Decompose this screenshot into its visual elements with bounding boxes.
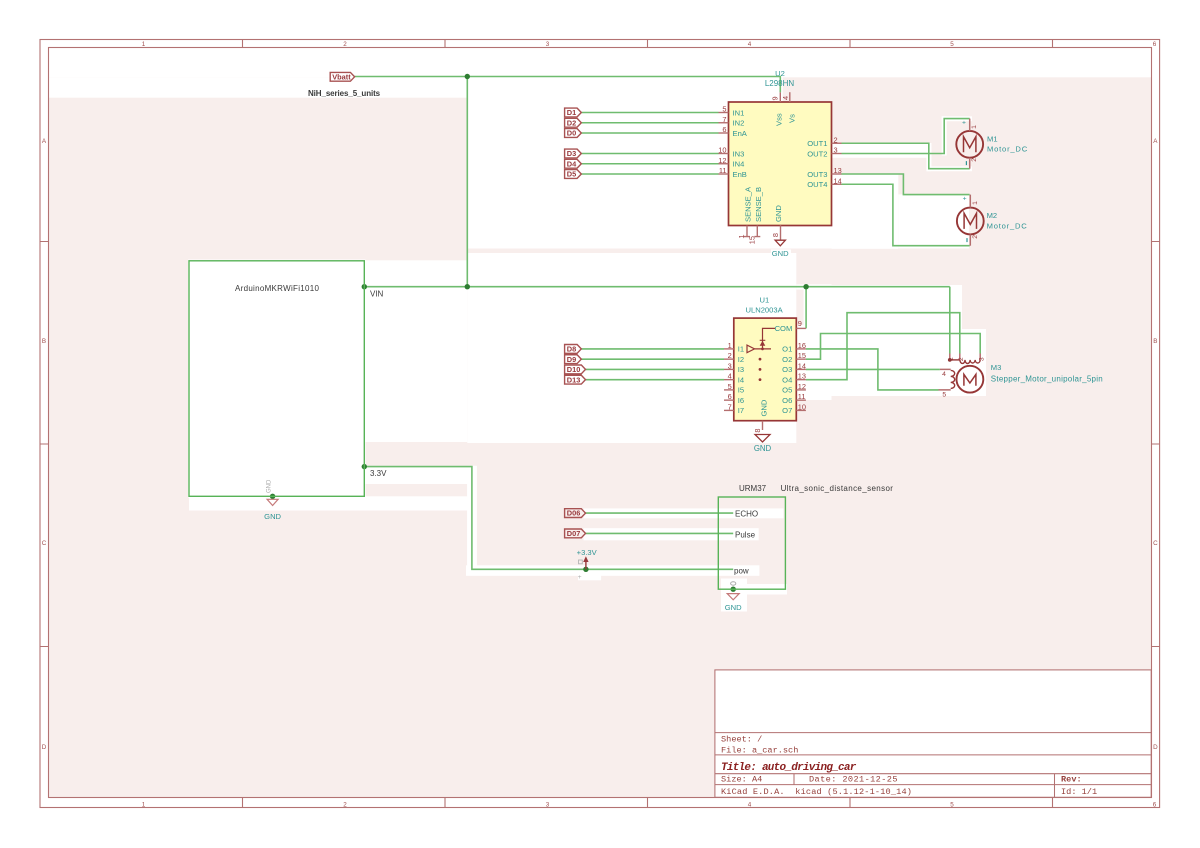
svg-text:I7: I7: [738, 406, 744, 415]
svg-text:U2: U2: [775, 69, 785, 78]
svg-text:10: 10: [798, 402, 806, 411]
svg-text:File: a_car.sch: File: a_car.sch: [721, 745, 798, 755]
svg-text:I4: I4: [738, 375, 744, 384]
svg-text:I1: I1: [738, 345, 744, 354]
svg-text:8: 8: [753, 429, 762, 433]
svg-text:O1: O1: [782, 345, 792, 354]
svg-text:5: 5: [942, 392, 946, 399]
svg-text:3: 3: [834, 146, 838, 155]
svg-text:3: 3: [546, 802, 550, 809]
svg-text:Title: auto_driving_car: Title: auto_driving_car: [721, 762, 857, 774]
svg-text:+3.3V: +3.3V: [577, 548, 598, 557]
svg-text:Vs: Vs: [788, 114, 797, 123]
svg-text:GND: GND: [759, 399, 768, 416]
svg-text:+: +: [578, 574, 582, 581]
svg-text:7: 7: [728, 402, 732, 411]
svg-text:Vbatt: Vbatt: [332, 72, 351, 81]
svg-text:2: 2: [343, 41, 347, 48]
svg-text:1: 1: [972, 201, 979, 205]
svg-text:D4: D4: [567, 159, 577, 168]
svg-text:+: +: [963, 195, 967, 202]
svg-text:D8: D8: [567, 345, 576, 354]
svg-text:COM: COM: [775, 324, 793, 333]
svg-text:1: 1: [142, 802, 146, 809]
svg-text:I3: I3: [738, 365, 744, 374]
svg-text:12: 12: [718, 156, 726, 165]
svg-text:GND: GND: [264, 512, 281, 521]
svg-text:2: 2: [972, 235, 979, 239]
svg-text:Motor_DC: Motor_DC: [987, 221, 1028, 230]
svg-text:Size: A4: Size: A4: [721, 775, 762, 785]
svg-text:Motor_DC: Motor_DC: [987, 144, 1028, 153]
svg-text:URM37: URM37: [739, 484, 767, 493]
svg-text:10: 10: [718, 146, 726, 155]
svg-text:D06: D06: [567, 509, 581, 518]
svg-text:GND: GND: [774, 205, 783, 222]
svg-text:O4: O4: [782, 375, 792, 384]
svg-text:D5: D5: [567, 170, 576, 179]
svg-text:4: 4: [748, 802, 752, 809]
svg-text:15: 15: [748, 236, 757, 244]
svg-text:O6: O6: [782, 396, 792, 405]
svg-text:A: A: [42, 138, 47, 145]
svg-text:SENSE_A: SENSE_A: [744, 186, 753, 222]
svg-text:13: 13: [834, 166, 842, 175]
svg-text:GND: GND: [772, 249, 789, 258]
svg-text:D: D: [1153, 744, 1158, 751]
svg-text:pow: pow: [734, 566, 749, 575]
svg-text:M3: M3: [991, 363, 1002, 372]
svg-text:4: 4: [728, 372, 732, 381]
svg-text:4: 4: [942, 371, 946, 378]
svg-text:D07: D07: [567, 529, 581, 538]
svg-text:14: 14: [798, 361, 806, 370]
svg-text:13: 13: [798, 372, 806, 381]
svg-text:5: 5: [722, 105, 726, 114]
svg-text:IN1: IN1: [733, 108, 745, 117]
svg-text:9: 9: [798, 319, 802, 328]
svg-text:NiH_series_5_units: NiH_series_5_units: [308, 89, 381, 98]
svg-text:Id: 1/1: Id: 1/1: [1061, 787, 1097, 797]
svg-text:6: 6: [728, 392, 732, 401]
svg-text:B: B: [1153, 338, 1157, 345]
svg-text:6: 6: [722, 125, 726, 134]
svg-text:Rev:: Rev:: [1061, 775, 1082, 785]
svg-text:O5: O5: [782, 386, 792, 395]
svg-text:3: 3: [546, 41, 550, 48]
svg-text:L298HN: L298HN: [765, 79, 795, 88]
svg-text:3.3V: 3.3V: [370, 469, 387, 478]
svg-text:5: 5: [950, 802, 954, 809]
svg-text:IN3: IN3: [733, 149, 745, 158]
svg-text:1: 1: [142, 41, 146, 48]
svg-text:Vss: Vss: [775, 113, 784, 126]
svg-text:11: 11: [719, 166, 727, 175]
svg-text:2: 2: [343, 802, 347, 809]
svg-text:12: 12: [798, 382, 806, 391]
svg-text:D3: D3: [567, 149, 576, 158]
svg-text:ULN2003A: ULN2003A: [746, 306, 784, 315]
svg-text:GND: GND: [266, 479, 272, 493]
svg-text:8: 8: [771, 233, 780, 237]
svg-text:14: 14: [834, 176, 842, 185]
svg-text:7: 7: [722, 115, 726, 124]
svg-text:O7: O7: [782, 406, 792, 415]
svg-text:KiCad E.D.A. kicad (5.1.12-1-: KiCad E.D.A. kicad (5.1.12-1-10_14): [721, 787, 912, 797]
svg-text:3: 3: [979, 357, 986, 361]
svg-text:I6: I6: [738, 396, 744, 405]
svg-text:EnA: EnA: [733, 129, 748, 138]
svg-text:15: 15: [798, 351, 806, 360]
svg-text:EnB: EnB: [733, 170, 747, 179]
svg-text:2: 2: [728, 351, 732, 360]
svg-text:4: 4: [781, 96, 790, 100]
svg-text:A: A: [1153, 138, 1158, 145]
svg-text:D9: D9: [567, 355, 576, 364]
svg-text:Pulse: Pulse: [735, 530, 756, 539]
svg-text:1: 1: [737, 235, 746, 239]
svg-text:3: 3: [728, 361, 732, 370]
svg-text:Date: 2021-12-25: Date: 2021-12-25: [809, 775, 898, 785]
svg-text:4: 4: [748, 41, 752, 48]
svg-text:6: 6: [1153, 802, 1157, 809]
svg-text:VIN: VIN: [370, 290, 384, 299]
svg-text:IN4: IN4: [733, 160, 745, 169]
svg-text:2: 2: [834, 135, 838, 144]
svg-text:6: 6: [1153, 41, 1157, 48]
svg-text:GND: GND: [754, 444, 772, 453]
svg-text:5: 5: [728, 382, 732, 391]
svg-text:OUT2: OUT2: [807, 149, 827, 158]
svg-text:C: C: [42, 540, 47, 547]
svg-text:O2: O2: [782, 355, 792, 364]
svg-text:D13: D13: [567, 375, 581, 384]
svg-text:C: C: [1153, 540, 1158, 547]
svg-text:+: +: [962, 119, 966, 126]
svg-text:16: 16: [798, 341, 806, 350]
svg-text:Ultra_sonic_distance_sensor: Ultra_sonic_distance_sensor: [781, 484, 894, 493]
svg-text:Sheet: /: Sheet: /: [721, 734, 762, 744]
svg-text:1: 1: [971, 125, 978, 129]
svg-text:1: 1: [948, 357, 955, 361]
svg-text:D0: D0: [567, 129, 576, 138]
svg-text:B: B: [42, 338, 46, 345]
svg-text:D10: D10: [567, 365, 581, 374]
svg-text:11: 11: [798, 392, 806, 401]
svg-text:U1: U1: [760, 296, 770, 305]
svg-text:SENSE_B: SENSE_B: [754, 187, 763, 222]
svg-text:OUT3: OUT3: [807, 170, 827, 179]
svg-text:OUT4: OUT4: [807, 180, 827, 189]
svg-text:D: D: [42, 744, 47, 751]
svg-text:M1: M1: [987, 135, 998, 144]
svg-text:2: 2: [971, 158, 978, 162]
svg-text:1: 1: [728, 341, 732, 350]
svg-text:D1: D1: [567, 108, 576, 117]
svg-text:I5: I5: [738, 386, 744, 395]
svg-text:2: 2: [958, 357, 965, 361]
svg-text:M2: M2: [987, 211, 998, 220]
svg-text:D2: D2: [567, 118, 576, 127]
svg-text:GND: GND: [725, 603, 742, 612]
svg-text:9: 9: [771, 96, 780, 100]
svg-text:O3: O3: [782, 365, 792, 374]
svg-text:OUT1: OUT1: [807, 139, 827, 148]
svg-text:ArduinoMKRWiFi1010: ArduinoMKRWiFi1010: [235, 284, 319, 293]
svg-text:ECHO: ECHO: [735, 509, 758, 518]
svg-text:IN2: IN2: [733, 119, 745, 128]
svg-text:5: 5: [950, 41, 954, 48]
svg-text:Stepper_Motor_unipolar_5pin: Stepper_Motor_unipolar_5pin: [991, 375, 1103, 384]
svg-text:I2: I2: [738, 355, 744, 364]
